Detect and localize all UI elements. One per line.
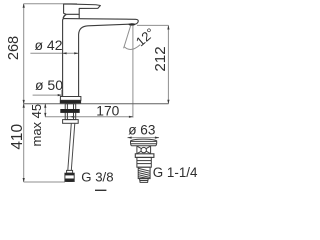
base flange bbox=[60, 97, 81, 101]
extension line bottom (hose end) bbox=[24, 181, 65, 183]
faucet body and spout outline bbox=[63, 19, 139, 97]
dimension arrowheads bbox=[23, 3, 170, 182]
svg-text:268: 268 bbox=[6, 36, 22, 60]
drain body bbox=[137, 157, 151, 167]
dia63 dimension line bbox=[128, 137, 160, 139]
mounting limit / 170 dimension line bbox=[45, 116, 133, 118]
svg-text:max 45: max 45 bbox=[29, 104, 44, 147]
212 dimension line bbox=[167, 25, 169, 103]
shank below counter bbox=[65, 104, 76, 120]
drain neck with overflow bbox=[137, 146, 151, 154]
faucet handle lever bbox=[63, 4, 100, 18]
svg-text:410: 410 bbox=[9, 124, 26, 150]
part number mark bottom bbox=[95, 189, 106, 191]
svg-text:ø 42: ø 42 bbox=[34, 37, 62, 53]
aerator bbox=[128, 23, 135, 25]
mounting nut dark band bbox=[60, 109, 79, 113]
flexible hoses bbox=[68, 123, 75, 170]
spout axis line 12deg vertical bbox=[132, 26, 134, 118]
svg-text:ø 50: ø 50 bbox=[35, 77, 63, 93]
extension line top bbox=[24, 3, 77, 5]
max45 dimension line bbox=[44, 104, 46, 117]
dia50 extension line bbox=[61, 90, 63, 97]
svg-text:G 1-1/4: G 1-1/4 bbox=[153, 165, 198, 180]
12deg angled line bbox=[124, 26, 131, 49]
svg-text:170: 170 bbox=[96, 104, 119, 119]
base dark gasket band bbox=[60, 100, 81, 103]
pull knob circle bbox=[141, 147, 146, 152]
hose end collar bbox=[67, 170, 73, 173]
drain cap bbox=[130, 139, 156, 146]
dia50 dimension line bbox=[33, 94, 62, 96]
neck curve bbox=[63, 15, 66, 19]
extension line aerator to 212 bbox=[137, 24, 169, 26]
dimension line vertical left (268/410) bbox=[24, 4, 169, 182]
svg-text:212: 212 bbox=[152, 46, 169, 71]
dia42 dimension line bbox=[30, 52, 78, 54]
drain threaded tailpiece bbox=[138, 167, 150, 178]
svg-text:G 3/8: G 3/8 bbox=[81, 169, 113, 184]
hose end fitting G3/8 bbox=[65, 173, 74, 181]
12deg arc bbox=[124, 45, 140, 50]
handle back edge bbox=[78, 14, 80, 18]
counter top line bbox=[24, 103, 169, 105]
svg-text:ø 63: ø 63 bbox=[128, 123, 155, 138]
cross hatch bbox=[137, 146, 150, 153]
drain tip bbox=[140, 179, 149, 183]
hose connection flange bbox=[63, 120, 79, 124]
drain flange bbox=[135, 154, 154, 158]
